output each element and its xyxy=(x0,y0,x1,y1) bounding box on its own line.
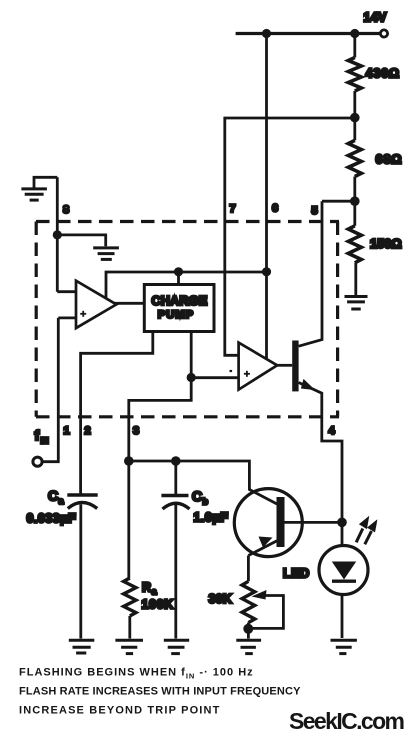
terminal f_IN xyxy=(33,457,42,466)
svg-text:7: 7 xyxy=(230,203,236,215)
wire tap to pin 7 xyxy=(225,118,355,355)
svg-text:FLASH RATE INCREASES WITH INPU: FLASH RATE INCREASES WITH INPUT FREQUENC… xyxy=(19,686,301,698)
terminal 14V xyxy=(380,30,387,37)
wire inverting input from pin8 xyxy=(57,290,76,293)
svg-text:FLASHING BEGINS WHEN fIN -· 10: FLASHING BEGINS WHEN fIN -· 100 Hz xyxy=(19,667,254,681)
ground under LED xyxy=(331,640,357,653)
wire pin 6 xyxy=(265,34,268,359)
wire 430 to node xyxy=(353,91,356,118)
svg-text:68Ω: 68Ω xyxy=(376,153,403,167)
resistor Ra 100K xyxy=(124,578,136,616)
node comparator input junction xyxy=(187,373,196,382)
svg-text:2: 2 xyxy=(85,425,91,437)
wire pin3 to Ra xyxy=(127,461,130,578)
wire bottom horizontal to Q2 collector xyxy=(129,461,250,491)
svg-text:1.0μF: 1.0μF xyxy=(194,511,229,525)
pot wiper arrow xyxy=(252,590,267,600)
op-amp U1a xyxy=(76,281,116,328)
ground under 150 xyxy=(345,297,368,310)
node divider tap 430/68 xyxy=(350,113,360,123)
svg-text:f: f xyxy=(35,427,40,443)
svg-text:b: b xyxy=(203,497,209,507)
svg-text:R: R xyxy=(142,581,151,595)
Q2 collector lead xyxy=(249,490,277,505)
node pin8 junction xyxy=(53,230,62,239)
arrow Q1 emitter xyxy=(301,379,315,390)
wire node to 150 xyxy=(353,201,356,226)
Q2 base lead xyxy=(285,521,343,524)
potentiometer 30K xyxy=(242,581,255,622)
svg-text:4: 4 xyxy=(329,425,336,437)
svg-text:6: 6 xyxy=(272,203,278,215)
wire charge pump right stem xyxy=(190,332,193,378)
Q2 emitter arrow xyxy=(259,537,273,548)
Q2 emitter lead xyxy=(248,541,277,556)
IC dashed box xyxy=(36,222,339,417)
ground top-left xyxy=(21,177,57,200)
resistor R2 68ohm xyxy=(348,140,361,176)
transistor Q1 base bar xyxy=(292,341,298,392)
svg-text:C: C xyxy=(192,488,202,504)
wire 14V to 430 xyxy=(353,34,356,58)
node top rail / pin6 junction xyxy=(262,29,271,38)
svg-text:CHARGE: CHARGE xyxy=(152,294,208,308)
node pin3 bottom junction xyxy=(124,456,134,466)
resistor R1 430ohm xyxy=(348,58,361,92)
wire Q1 emitter to pin 4 xyxy=(299,383,342,639)
wire non-inverting input xyxy=(58,316,76,319)
wire Q1 collector to pin 5 xyxy=(299,201,322,346)
node top rail / 430 junction xyxy=(350,29,359,38)
wire Q2 emitter to pot xyxy=(247,556,250,582)
node rail pin6 xyxy=(262,267,271,276)
wire rail to charge pump top xyxy=(177,272,180,285)
wire op-amp output to charge pump xyxy=(114,302,144,305)
wire pin8 to ground stem xyxy=(57,235,105,246)
svg-text:430Ω: 430Ω xyxy=(366,67,400,81)
svg-text:30K: 30K xyxy=(209,592,233,606)
wire 150 to ground xyxy=(354,263,357,297)
capacitor Ca xyxy=(27,488,98,639)
wire top supply rail xyxy=(236,32,381,35)
ground under Cb xyxy=(164,640,189,653)
wire tap to pin 5 xyxy=(322,200,355,203)
ground inner xyxy=(93,248,119,260)
svg-text:C: C xyxy=(48,488,58,504)
wire junction to pin 3 xyxy=(129,378,191,462)
svg-text:5: 5 xyxy=(312,205,318,217)
LED D1 xyxy=(283,546,368,595)
svg-text:1: 1 xyxy=(64,425,70,437)
transistor Q2 xyxy=(234,489,342,557)
wire comparator output to Q1 base xyxy=(277,364,292,367)
svg-text:IN: IN xyxy=(41,437,49,446)
wire charge pump left stem to pin 2 xyxy=(81,332,153,494)
node rail to charge pump xyxy=(174,267,183,276)
wire f_IN to pin 1 xyxy=(44,318,59,462)
svg-text:3: 3 xyxy=(133,425,139,437)
node pot bottom xyxy=(243,624,253,634)
svg-text:INCREASE BEYOND TRIP POINT: INCREASE BEYOND TRIP POINT xyxy=(19,705,220,717)
wire node to 68 xyxy=(353,118,356,141)
wire internal V+ rail xyxy=(106,272,267,299)
ground under pot xyxy=(236,640,261,653)
svg-text:14V: 14V xyxy=(364,11,388,25)
svg-text:PUMP: PUMP xyxy=(158,309,195,321)
svg-text:150Ω: 150Ω xyxy=(370,237,402,251)
svg-text:0.033μF: 0.033μF xyxy=(27,512,77,526)
svg-text:8: 8 xyxy=(63,204,69,216)
wire 68 to node xyxy=(353,177,356,202)
svg-text:100K: 100K xyxy=(142,598,174,612)
ground under Ca xyxy=(69,640,95,653)
node Cb junction xyxy=(171,456,181,466)
ground under Ra xyxy=(115,640,143,653)
wire Ra to ground xyxy=(128,616,131,639)
node divider tap 68/150 xyxy=(350,196,360,206)
resistor R3 150ohm xyxy=(348,226,361,263)
caption text xyxy=(19,667,301,717)
wire junction to comparator plus input xyxy=(191,376,238,379)
svg-text:a: a xyxy=(152,587,158,597)
svg-text:SeekIC.com: SeekIC.com xyxy=(289,708,405,734)
svg-text:a: a xyxy=(59,496,65,506)
node pin4 LED junction xyxy=(337,518,347,528)
capacitor Cb xyxy=(161,461,228,639)
charge pump U1b box xyxy=(144,285,214,332)
light arrows xyxy=(356,516,377,545)
comparator U1c xyxy=(230,343,278,390)
wire pot to ground xyxy=(247,623,250,639)
wire pin 8 xyxy=(56,177,59,291)
svg-text:LED: LED xyxy=(283,567,310,581)
